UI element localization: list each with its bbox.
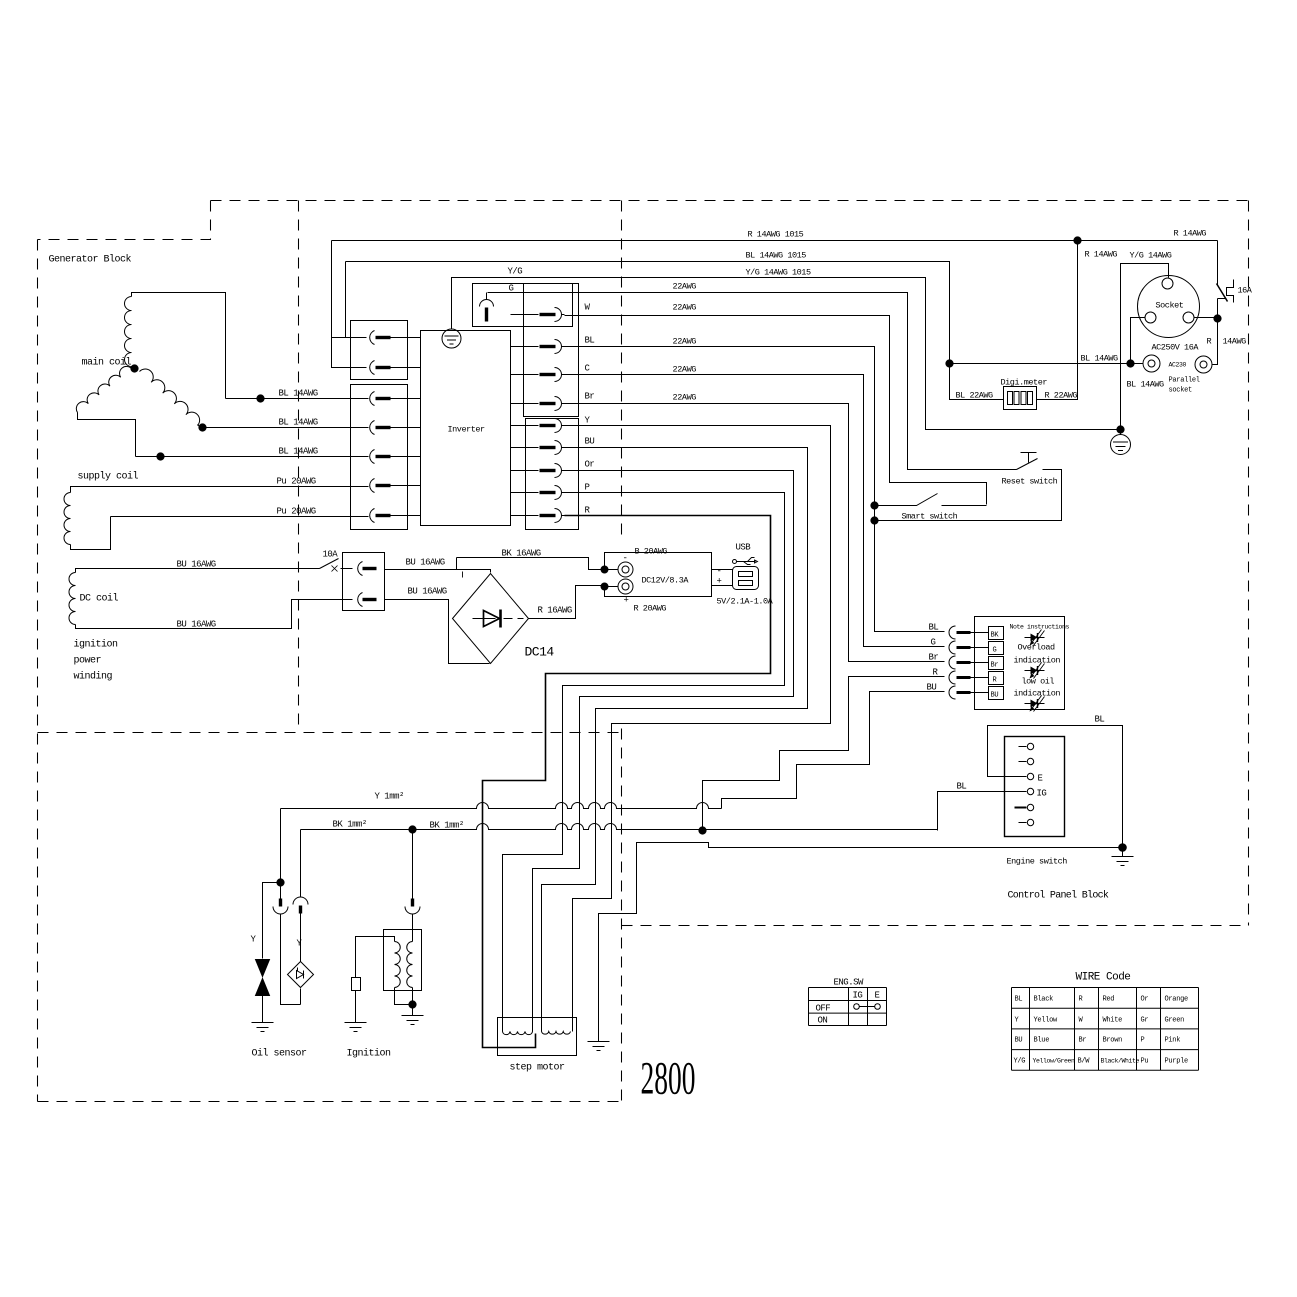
ENG.SW off contact symbol (854, 1004, 860, 1010)
svg-text:Y/G 14AWG 1015: Y/G 14AWG 1015 (746, 268, 811, 278)
dashed right edge (1248, 201, 1250, 926)
svg-text:low oil: low oil (1022, 677, 1055, 687)
DC12V outlet box (605, 553, 712, 597)
connector box 10A (343, 553, 385, 611)
connector pin Br ind (949, 656, 956, 669)
svg-text:Oil sensor: Oil sensor (252, 1048, 308, 1060)
USB port (733, 567, 759, 590)
wire main coil left leg to BL line 3 (78, 413, 136, 457)
wire Pu line 1 (71, 487, 369, 493)
node smart junction lower (871, 517, 878, 524)
svg-text:DC14: DC14 (525, 645, 555, 660)
terminal DC plus (605, 586, 618, 588)
svg-text:socket: socket (1169, 387, 1193, 395)
node BL1 junction (257, 395, 264, 402)
indication box (975, 617, 1065, 710)
wire plug to ground (355, 991, 357, 1023)
svg-text:Y/G: Y/G (508, 267, 523, 277)
dashed generator inner divider vertical (298, 201, 300, 733)
node ignition ground junction (409, 1001, 416, 1008)
engine switch pin IG (1019, 791, 1027, 793)
connector pin L2 (332, 361, 421, 375)
svg-text:BK: BK (991, 632, 1000, 640)
svg-text:Engine switch: Engine switch (1007, 857, 1068, 867)
svg-text:WIRE Code: WIRE Code (1076, 972, 1131, 984)
node smart junction upper (871, 502, 878, 509)
engine switch outline (1005, 737, 1065, 837)
diode diamond oil sensor (288, 962, 314, 988)
terminal DC minus (605, 569, 618, 571)
svg-text:R 14AWG 1015: R 14AWG 1015 (748, 230, 804, 240)
switch smart blade (875, 494, 987, 506)
dashed generator bottom divider (38, 732, 622, 734)
connector pin L4 (370, 421, 421, 435)
RIGHTSIDE (946, 237, 1234, 455)
svg-text:BL: BL (1095, 715, 1105, 725)
svg-text:BU: BU (927, 683, 937, 693)
dashed step left (38, 201, 211, 240)
wire BK 1mm2 line with hops (301, 824, 938, 830)
wire R 16AWG (529, 586, 602, 619)
svg-text:Black/White: Black/White (1101, 1058, 1140, 1065)
svg-text:BL 14AWG: BL 14AWG (279, 447, 318, 457)
svg-text:22AWG: 22AWG (673, 303, 697, 313)
node B junction (601, 566, 608, 573)
wire E to ground BL (988, 726, 1123, 848)
svg-text:G: G (993, 647, 997, 655)
svg-text:B/W: B/W (1078, 1058, 1091, 1066)
wire BL line 1 (226, 398, 369, 400)
wire Or 22AWG (533, 471, 794, 1031)
svg-text:Note instructions: Note instructions (1010, 624, 1070, 631)
svg-text:IG: IG (853, 991, 863, 1001)
svg-text:BL 22AWG: BL 22AWG (956, 391, 994, 401)
wire step motor stubs (503, 1018, 573, 1032)
wire G 22AWG (488, 293, 1017, 470)
wire BL line 3 (136, 456, 369, 458)
svg-text:BK 1mm²: BK 1mm² (430, 821, 464, 831)
ENG.SW table (809, 988, 887, 1026)
svg-text:P: P (1141, 1037, 1145, 1045)
connector box left lower (351, 385, 408, 530)
svg-text:Generator Block: Generator Block (49, 254, 132, 266)
engine switch pin 1 (1019, 746, 1027, 748)
svg-text:22AWG: 22AWG (673, 337, 697, 347)
CONTROLPANEL (588, 617, 1134, 1051)
svg-text:DC coil: DC coil (80, 593, 119, 605)
wire Y 1mm2 line with hops (281, 803, 722, 809)
svg-text:Control Panel Block: Control Panel Block (1008, 890, 1109, 902)
svg-text:Brown: Brown (1103, 1037, 1123, 1045)
svg-text:E: E (875, 991, 880, 1001)
svg-text:22AWG: 22AWG (673, 365, 697, 375)
svg-text:10A: 10A (323, 550, 339, 560)
digital meter digits (1008, 392, 1013, 405)
wire socket right pin to breaker (1195, 317, 1218, 319)
svg-text:R 16AWG: R 16AWG (538, 606, 572, 616)
wire IG to BK line (938, 792, 1027, 831)
node YG ground junction (1117, 426, 1124, 433)
switch reset blade (1017, 459, 1038, 470)
engine switch pin E (1019, 776, 1027, 778)
svg-text:Or: Or (1141, 996, 1149, 1004)
svg-text:IG: IG (1037, 789, 1047, 799)
svg-text:BU 16AWG: BU 16AWG (177, 560, 216, 570)
svg-text:BL 14AWG 1015: BL 14AWG 1015 (746, 251, 807, 261)
svg-text:R 14AWG: R 14AWG (1174, 229, 1207, 239)
GENERATOR (64, 293, 385, 629)
svg-text:ignition: ignition (74, 639, 119, 651)
dashed left edge (37, 240, 39, 1102)
wire oil sensor return (300, 989, 302, 1005)
node BL2 junction (199, 424, 206, 431)
svg-text:BU 16AWG: BU 16AWG (406, 558, 445, 568)
wire indication R pin run (703, 677, 945, 831)
svg-text:-: - (623, 554, 628, 564)
wire terminal2 to breaker (1213, 319, 1218, 365)
main coil vertical winding (125, 297, 132, 367)
svg-text:22AWG: 22AWG (673, 282, 697, 292)
svg-text:winding: winding (74, 671, 113, 683)
connector ignition (411, 899, 414, 907)
svg-text:White: White (1103, 1017, 1123, 1025)
wire BL 14AWG 1015 (346, 262, 1004, 400)
wire oil sensor Y drop (281, 809, 301, 1005)
svg-text:Yellow: Yellow (1034, 1017, 1059, 1025)
connector fuse lower (358, 593, 363, 607)
wire C 22AWG (565, 375, 945, 647)
engine switch pin 5 (1015, 807, 1027, 809)
wire main coil top to BL line 1 (132, 293, 226, 399)
svg-text:22AWG: 22AWG (673, 393, 697, 403)
svg-text:ENG.SW: ENG.SW (834, 978, 865, 988)
svg-text:power: power (74, 656, 102, 667)
svg-text:Y 1mm²: Y 1mm² (375, 792, 405, 802)
ignition primary coil (395, 942, 401, 988)
engine switch pin 6 (1019, 822, 1027, 824)
socket pin left (1145, 312, 1156, 323)
svg-text:+: + (717, 577, 722, 587)
svg-text:Br: Br (1079, 1037, 1087, 1045)
BOTTOM (252, 803, 938, 1056)
svg-text:G: G (509, 284, 514, 294)
connector fuse upper (358, 562, 363, 576)
svg-text:Br: Br (585, 392, 595, 402)
wire to USB minus (712, 569, 733, 571)
wire R 14AWG 1015 (332, 241, 1218, 368)
wire Pu line 2 (111, 516, 369, 518)
wire BL 14AWG to parallel socket (950, 363, 1143, 365)
wire BU 22AWG (542, 448, 808, 1031)
connector box right upper (524, 284, 579, 417)
svg-text:2800: 2800 (641, 1053, 696, 1105)
connector pin G ind (949, 641, 956, 654)
wire BU lower to bridge (385, 600, 490, 664)
wire Y 22AWG (565, 426, 831, 1031)
node star point (131, 365, 138, 372)
svg-text:Red: Red (1103, 996, 1115, 1004)
svg-text:main coil: main coil (82, 357, 132, 369)
connector pin R ind (949, 671, 956, 684)
ground symbol socket area (1120, 430, 1122, 435)
wire P 22AWG (503, 493, 785, 1018)
svg-text:+: + (624, 596, 629, 606)
dashed control panel bottom (622, 925, 1249, 927)
svg-text:-: - (717, 567, 722, 577)
svg-text:14AWG: 14AWG (1223, 337, 1247, 347)
node breaker junction (1214, 315, 1221, 322)
svg-text:Green: Green (1165, 1017, 1185, 1025)
svg-text:BL: BL (585, 336, 595, 346)
wire BL line 2 (198, 425, 369, 428)
svg-text:R 22AWG: R 22AWG (1045, 391, 1078, 401)
breaker 16A (1217, 241, 1219, 319)
connector pin L5 (370, 450, 421, 464)
wire Br 22AWG (565, 404, 945, 662)
svg-text:indication: indication (1014, 656, 1061, 666)
switch 10A (320, 559, 339, 569)
svg-text:5V/2.1A-1.0A: 5V/2.1A-1.0A (717, 597, 774, 607)
switch reset button actuator (1021, 453, 1037, 463)
svg-text:BU: BU (991, 692, 999, 700)
svg-text:BK 16AWG: BK 16AWG (502, 549, 541, 559)
svg-text:BL 14AWG: BL 14AWG (279, 389, 318, 399)
svg-text:Br: Br (929, 653, 939, 663)
dashed outline top (211, 200, 1249, 202)
USB icon (733, 560, 737, 564)
svg-text:BU 16AWG: BU 16AWG (177, 620, 216, 630)
node engine ground junction (1119, 844, 1127, 852)
svg-text:16A: 16A (1238, 286, 1253, 296)
wire oil sensor right riser (300, 830, 302, 962)
wire R 22AWG to DC (483, 516, 771, 1048)
svg-text:Gr: Gr (1141, 1017, 1149, 1025)
node socket left pin junction (1127, 360, 1134, 367)
svg-text:BL: BL (1015, 996, 1023, 1004)
parallel socket terminal 1 (1143, 355, 1160, 372)
indication terminal strip (989, 627, 1004, 640)
svg-text:BL: BL (929, 623, 939, 633)
svg-text:indication: indication (1014, 689, 1061, 699)
svg-text:Y/G: Y/G (1014, 1058, 1026, 1066)
svg-text:Orange: Orange (1165, 996, 1189, 1004)
svg-text:Yellow/Green: Yellow/Green (1033, 1058, 1076, 1065)
connector box left upper (351, 321, 408, 380)
DC coil winding (69, 573, 76, 625)
svg-text:G: G (931, 638, 936, 648)
INVERTER (332, 284, 579, 530)
diode inside DC14 (484, 611, 500, 627)
svg-text:Pu: Pu (1141, 1058, 1149, 1066)
BOUNDARIES (38, 201, 1249, 1102)
svg-text:Purple: Purple (1165, 1058, 1189, 1066)
connector pin Or (511, 464, 565, 478)
svg-text:ON: ON (818, 1016, 828, 1026)
svg-text:Ignition: Ignition (347, 1048, 392, 1060)
G wire box (473, 284, 573, 327)
connector oil sensor right (293, 897, 308, 904)
connector pin Y (511, 419, 565, 433)
svg-text:OFF: OFF (816, 1004, 831, 1014)
parallel socket terminal 2 (1195, 356, 1212, 373)
ground symbol step area (588, 1042, 610, 1051)
wire Y/G 14AWG 1015 (452, 278, 1121, 430)
node R junction (601, 583, 608, 590)
wire BU 16AWG bottom (76, 600, 353, 629)
wire supply coil bottom (71, 517, 111, 550)
dashed centre vertical divider (621, 201, 623, 537)
ground symbol ignition left (345, 1023, 367, 1032)
svg-text:Reset switch: Reset switch (1002, 477, 1058, 487)
connector pin W (511, 308, 565, 322)
ground symbol on inverter (442, 329, 461, 348)
wire BL 22AWG (565, 347, 945, 632)
svg-text:Digi.meter: Digi.meter (1001, 378, 1048, 388)
wire oil sensor zener branch (263, 883, 281, 959)
socket pin right (1183, 312, 1194, 323)
connector pin BL ind (949, 626, 956, 639)
wire W 22AWG (565, 316, 987, 505)
connector pin P (511, 486, 565, 500)
digital meter box (1004, 387, 1037, 410)
ground symbol engine (1112, 848, 1134, 866)
LONGLINES (332, 241, 1218, 1048)
wire reset switch return (875, 470, 1062, 521)
svg-text:Blue: Blue (1034, 1037, 1050, 1045)
svg-text:B 20AWG: B 20AWG (635, 547, 668, 557)
node BL1015 junction (946, 360, 953, 367)
svg-text:BU: BU (1015, 1037, 1023, 1045)
svg-text:Parallel: Parallel (1169, 377, 1200, 385)
connector box right lower (526, 419, 579, 530)
thermal cutoff triangles (256, 960, 270, 977)
svg-text:BL 14AWG: BL 14AWG (1081, 354, 1119, 364)
TABLES (809, 988, 1199, 1071)
svg-text:BL 14AWG: BL 14AWG (1127, 380, 1165, 390)
wire ignition primary top (356, 937, 395, 978)
svg-text:Or: Or (585, 460, 595, 470)
wire indication BU pin run (722, 692, 945, 809)
node BK ignition junction (409, 826, 416, 833)
connector pin BU (511, 441, 565, 455)
connector pin R (511, 509, 565, 523)
node R1015 digimeter junction (1074, 237, 1081, 244)
spark plug resistor (352, 978, 361, 991)
svg-text:R 14AWG: R 14AWG (1085, 250, 1118, 260)
connector pin L1 (332, 331, 421, 345)
WIRE code table (1012, 988, 1199, 1071)
engine switch pin 2 (1019, 761, 1027, 763)
wire zener to ground (262, 996, 264, 1023)
node oil sensor junction (277, 879, 284, 886)
wire to USB plus (712, 585, 733, 587)
svg-text:Black: Black (1034, 996, 1054, 1004)
wire engine ground run to step area (599, 843, 1123, 1042)
wire ignition drop (412, 830, 414, 930)
main coil left diagonal winding (76, 366, 131, 412)
svg-text:DC12V/8.3A: DC12V/8.3A (642, 576, 690, 586)
step motor box (498, 1018, 577, 1056)
svg-text:BU 16AWG: BU 16AWG (408, 587, 447, 597)
svg-text:P: P (585, 483, 590, 493)
svg-text:step motor: step motor (510, 1063, 566, 1074)
svg-text:Br: Br (991, 662, 999, 670)
svg-text:AC250V 16A: AC250V 16A (1152, 343, 1200, 353)
wire socket left pin down (1131, 318, 1145, 364)
svg-text:R: R (1207, 337, 1212, 347)
main coil right diagonal winding (140, 369, 200, 426)
connector pin G vertical (480, 300, 494, 307)
wire R 22AWG digimeter riser (1037, 241, 1078, 400)
LED overload (1025, 637, 1045, 639)
svg-text:BL: BL (957, 782, 967, 792)
node BL3 junction (157, 453, 164, 460)
svg-text:Pu 20AWG: Pu 20AWG (277, 507, 316, 517)
svg-text:supply coil: supply coil (78, 471, 139, 483)
ground symbol ignition right (402, 1016, 424, 1025)
svg-text:Overload: Overload (1018, 643, 1056, 653)
connector pin L3 (370, 392, 421, 406)
svg-text:Socket: Socket (1156, 301, 1184, 311)
dashed bottom edge (38, 1101, 622, 1103)
svg-text:Y/G 14AWG: Y/G 14AWG (1130, 251, 1172, 261)
inverter U1 box (421, 331, 511, 526)
connector pin L6 (370, 479, 421, 493)
svg-text:Smart switch: Smart switch (902, 512, 958, 522)
connector pin C (511, 368, 565, 382)
step motor coil right (542, 1032, 571, 1035)
connector oil sensor left (279, 899, 282, 907)
wire Y/G to socket top pin (1121, 264, 1169, 430)
socket body (1138, 276, 1200, 338)
ignition transformer box (384, 930, 422, 991)
svg-text:Pink: Pink (1165, 1037, 1181, 1045)
connector pin L7 (370, 509, 421, 523)
svg-text:Inverter: Inverter (448, 425, 486, 435)
LED low oil (1025, 703, 1045, 705)
svg-text:BK 1mm²: BK 1mm² (333, 820, 367, 830)
rectifier DC14 bridge (453, 574, 529, 664)
wire switch to connector box (341, 568, 353, 570)
connector pin Br (511, 397, 565, 411)
socket pin top (1162, 278, 1173, 289)
svg-text:R 20AWG: R 20AWG (634, 604, 667, 614)
node BK R-pin junction (699, 827, 706, 834)
svg-text:AC230: AC230 (1169, 362, 1187, 369)
wire BU 16AWG top (76, 569, 320, 573)
LED indication mid (1025, 670, 1045, 672)
ignition secondary coil (407, 942, 413, 988)
svg-text:BU: BU (585, 437, 595, 447)
svg-text:Pu 20AWG: Pu 20AWG (277, 477, 316, 487)
step motor coil left (503, 1032, 533, 1035)
connector pin BL (511, 340, 565, 354)
svg-text:USB: USB (736, 543, 752, 553)
connector pin BU ind (949, 686, 956, 699)
supply coil winding (64, 493, 71, 545)
wire BK 16AWG (385, 558, 602, 573)
wire ignition secondary bottom (395, 930, 413, 1016)
svg-text:E: E (1038, 774, 1043, 784)
svg-text:BL 14AWG: BL 14AWG (279, 418, 318, 428)
ground symbol oil sensor (252, 1023, 274, 1032)
